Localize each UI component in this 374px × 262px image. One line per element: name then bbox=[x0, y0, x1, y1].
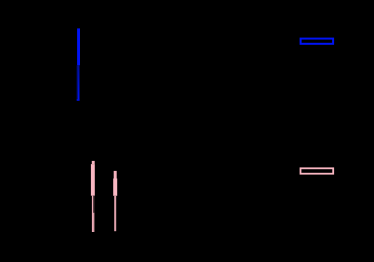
pink candle 1 lower wick light lower right bbox=[93, 213, 94, 232]
pink candle 1 lower wick light left edge bbox=[92, 196, 93, 232]
pink candle 2 upper wick bbox=[114, 171, 117, 179]
blue candlestick lower wick dark left bbox=[77, 65, 78, 100]
pink candle 2 body bbox=[113, 179, 117, 196]
pink candle 1 lower wick dark upper right bbox=[93, 196, 94, 213]
blue candlestick lower wick bright right bbox=[78, 65, 80, 100]
pink candle 1 upper wick bbox=[92, 161, 95, 164]
blue candlestick body bbox=[77, 28, 80, 65]
pink candle 2 lower wick bbox=[114, 196, 116, 231]
blue candlestick bottom cap bbox=[77, 99, 80, 101]
pink legend swatch (hollow rect) bbox=[301, 168, 334, 173]
blue legend swatch (hollow rect) bbox=[301, 39, 334, 44]
pink candle 1 body bbox=[91, 164, 95, 196]
